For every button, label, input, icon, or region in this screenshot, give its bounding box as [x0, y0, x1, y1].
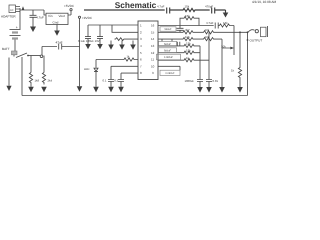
svg-text:1000uF: 1000uF	[185, 79, 195, 83]
svg-text:1k8: 1k8	[35, 79, 40, 83]
svg-text:OUTPUT: OUTPUT	[250, 38, 263, 42]
svg-text:47uF: 47uF	[56, 41, 63, 45]
svg-text:Schematic: Schematic	[115, 0, 157, 10]
svg-text:18k: 18k	[223, 21, 228, 25]
svg-text:0.1: 0.1	[114, 78, 118, 82]
svg-text:BATT: BATT	[2, 47, 10, 51]
svg-text:0.1: 0.1	[103, 78, 107, 82]
svg-text:+: +	[16, 26, 18, 30]
svg-text:470pF: 470pF	[205, 4, 213, 8]
svg-text:1k6: 1k6	[185, 35, 190, 39]
svg-text:Vin: Vin	[48, 14, 53, 18]
svg-text:16: 16	[151, 24, 155, 28]
svg-text:+5VDC: +5VDC	[64, 4, 75, 8]
svg-text:13: 13	[151, 44, 155, 48]
svg-text:12: 12	[151, 51, 155, 55]
svg-text:15k: 15k	[186, 48, 191, 52]
svg-text:LED: LED	[84, 67, 89, 71]
svg-text:4k7: 4k7	[185, 28, 190, 32]
svg-text:15: 15	[151, 30, 155, 34]
svg-text:4.7uF: 4.7uF	[206, 21, 214, 25]
svg-text:0.1uF 100uF 16V: 0.1uF 100uF 16V	[78, 39, 100, 43]
svg-text:0.082uF: 0.082uF	[164, 56, 174, 59]
svg-text:11: 11	[151, 58, 154, 62]
svg-text:560uF: 560uF	[164, 49, 172, 52]
svg-text:2k4: 2k4	[48, 79, 53, 83]
svg-text:DC: DC	[10, 9, 14, 12]
svg-text:+9VDC: +9VDC	[82, 16, 93, 20]
svg-text:Gnd: Gnd	[53, 21, 59, 25]
svg-text:10k: 10k	[221, 45, 226, 49]
svg-text:4/1/19, 10:08 AM: 4/1/19, 10:08 AM	[252, 0, 276, 4]
svg-text:0.01: 0.01	[213, 79, 219, 83]
svg-text:ADAPTER: ADAPTER	[1, 15, 16, 19]
svg-text:14: 14	[151, 37, 155, 41]
svg-text:15k: 15k	[185, 14, 190, 18]
svg-text:560uF: 560uF	[164, 43, 172, 46]
svg-text:4.7uF: 4.7uF	[36, 16, 44, 20]
svg-text:560uF: 560uF	[164, 28, 172, 31]
svg-text:4.7uF: 4.7uF	[157, 4, 165, 8]
svg-text:15k: 15k	[185, 4, 190, 8]
svg-text:Vout: Vout	[59, 14, 65, 18]
svg-text:10k: 10k	[205, 35, 210, 39]
svg-text:15k: 15k	[186, 42, 191, 46]
svg-text:10: 10	[151, 64, 155, 68]
svg-text:0.082uF: 0.082uF	[165, 72, 175, 75]
svg-text:10k: 10k	[205, 28, 210, 32]
